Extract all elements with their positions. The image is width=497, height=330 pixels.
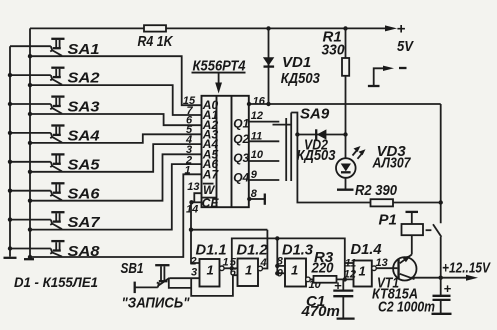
node: pin 16 / VD1 <box>266 102 270 106</box>
svg-text:1: 1 <box>207 263 214 278</box>
node: pin 9 tie <box>275 271 279 275</box>
svg-text:330: 330 <box>322 42 346 59</box>
wire: output Q2 pin 11 <box>249 140 279 142</box>
terminal bar pin 8 <box>264 194 266 205</box>
svg-text:SA2: SA2 <box>68 70 101 87</box>
LED VD3 AL307 <box>336 135 356 190</box>
svg-text:Q2: Q2 <box>233 132 249 146</box>
wire: D1.3 out to R3 <box>310 278 313 280</box>
svg-text:R4 1K: R4 1K <box>138 33 174 50</box>
node: SA4 output / pull-up bus <box>28 141 32 145</box>
bubble: D1.4 output <box>372 266 377 271</box>
diode VD1 KD503 <box>263 28 274 104</box>
wire: SA7 to A6 input pin <box>30 164 202 230</box>
svg-text:Q1: Q1 <box>233 117 249 131</box>
wire: D1.4 input pin 11 <box>345 262 354 264</box>
switch SA2 <box>10 68 65 85</box>
svg-text:220: 220 <box>311 259 334 276</box>
wire: VD2 branch <box>297 134 345 136</box>
svg-text:Q4: Q4 <box>233 171 249 185</box>
svg-text:"ЗАПИСЬ": "ЗАПИСЬ" <box>122 295 191 312</box>
svg-text:SA3: SA3 <box>68 99 101 116</box>
resistor R1 330 <box>342 28 349 134</box>
wire: pin 8 ground stub <box>249 198 264 200</box>
wire: right vertical from pin16 rail to relay contact <box>440 104 442 223</box>
wire: top +5V rail <box>30 27 390 29</box>
node: D1.1 out / NOR rail <box>230 266 234 270</box>
svg-text:13: 13 <box>187 181 199 193</box>
node: VD2 / R1 <box>343 132 347 136</box>
resistor R2 390 <box>371 199 394 206</box>
svg-text:12: 12 <box>251 110 263 122</box>
svg-text:8: 8 <box>251 188 258 200</box>
wire: SA1 to A0 input pin <box>30 56 202 105</box>
wire: SA9 lower contact to R2 rail <box>297 135 370 203</box>
underline of K556RT4 label <box>192 72 246 74</box>
wire: rail from D1.1 output to R3 node <box>232 238 345 279</box>
IC inner divider left <box>216 96 218 207</box>
wire: D1.1 out to D1.2 in pin 5 <box>224 267 237 269</box>
node: SA5 / left bus <box>8 160 12 164</box>
node: pin 8 tie <box>275 264 279 268</box>
svg-text:+: + <box>334 278 342 293</box>
switch SA9 <box>273 113 298 182</box>
svg-text:КД503: КД503 <box>297 147 337 164</box>
svg-text:1: 1 <box>223 257 229 269</box>
switch SA4 <box>10 126 65 143</box>
wire: SA3 to A2 input pin <box>30 114 202 125</box>
switch SA8 <box>10 241 65 257</box>
bubble: D1.1 output <box>220 266 225 271</box>
switch SA1 <box>10 39 65 56</box>
svg-text:C2 1000m: C2 1000m <box>378 299 435 316</box>
resistor R4 <box>144 25 166 31</box>
IC inner divider right <box>231 96 233 207</box>
node: R2 / right vertical <box>439 200 443 204</box>
svg-text:АЛ307: АЛ307 <box>372 155 411 172</box>
svg-text:SA9: SA9 <box>300 106 330 123</box>
node: top rail / VD1 <box>266 26 270 30</box>
node: SA3 output / pull-up bus <box>28 112 32 116</box>
svg-text:1: 1 <box>291 263 298 278</box>
LED arrows <box>353 146 366 159</box>
node: SA9 / VD2 <box>295 132 299 136</box>
svg-text:+: + <box>444 281 452 296</box>
svg-text:D1.3: D1.3 <box>282 242 314 259</box>
transistor VT1 KT815A <box>393 255 416 281</box>
svg-text:10: 10 <box>251 149 264 161</box>
wire: emitter to +12V node <box>411 277 441 279</box>
svg-text:3: 3 <box>191 267 197 279</box>
node: W-CE tie <box>189 200 193 204</box>
wire: pin 16 supply rail <box>249 103 441 105</box>
node: pin 16 at IC <box>247 102 251 106</box>
ground bar: pull-up bus terminal <box>24 258 34 260</box>
wire: D1.2 output up to feedback rail <box>263 230 268 269</box>
svg-text:+: + <box>397 21 406 38</box>
wire: minus terminal <box>374 68 386 86</box>
capacitor C1 470m <box>333 279 354 318</box>
node: SA1 output / pull-up bus <box>28 54 32 58</box>
svg-text:4: 4 <box>260 257 267 269</box>
svg-text:5V: 5V <box>397 38 415 55</box>
node: top rail / R1 <box>343 26 347 30</box>
wire: R2 to relay contact bus <box>393 202 441 204</box>
gate D1.3 <box>285 259 306 287</box>
node: rail / D1.3 inputs <box>275 236 279 240</box>
svg-text:12: 12 <box>344 268 356 280</box>
node: SA2 / left bus <box>8 73 12 77</box>
svg-text:SA4: SA4 <box>68 128 101 145</box>
node: SA3 / left bus <box>8 102 12 106</box>
relay linkage dash <box>426 229 432 231</box>
bubble: D1.2 output <box>258 266 263 271</box>
svg-text:SA1: SA1 <box>68 41 100 58</box>
wire: +12..15V output arrow <box>441 277 470 279</box>
node: SA7 output / pull-up bus <box>28 227 32 231</box>
svg-text:1: 1 <box>359 264 366 279</box>
arrowhead +5V <box>385 25 397 31</box>
wire: pull-up bus from R4 <box>29 28 31 258</box>
svg-text:+12..15V: +12..15V <box>442 260 492 277</box>
wire: SA8 to A7 input pin <box>30 174 202 257</box>
wire: output Q4 pin 9 <box>249 179 279 181</box>
node: pin 8 at IC <box>247 197 251 201</box>
bubble: D1.3 output <box>306 277 311 282</box>
wire: feedback to D1.1 input pin 2 <box>191 230 200 263</box>
svg-text:КД503: КД503 <box>281 70 321 87</box>
svg-text:SA7: SA7 <box>68 214 101 231</box>
node: SA8 / left bus <box>8 246 12 250</box>
relay P1 coil <box>402 212 424 255</box>
gate D1.1 <box>200 259 220 287</box>
wire: SA4 to A3 input pin <box>30 134 202 143</box>
node: SA5 output / pull-up bus <box>28 170 32 174</box>
switch SA5 <box>10 154 65 171</box>
switch SA6 <box>10 183 65 200</box>
pushbutton SB1 <box>135 265 170 293</box>
wire: output Q3 pin 10 <box>249 160 279 162</box>
node: SA4 / left bus <box>8 131 12 135</box>
svg-text:VD1: VD1 <box>282 54 311 71</box>
svg-text:D1.2: D1.2 <box>237 242 269 259</box>
relay contact arm <box>433 224 441 237</box>
svg-text:SB1: SB1 <box>121 260 144 277</box>
wire: SA2 to A1 input pin <box>30 85 202 115</box>
wire: left common bus (switch contacts) <box>9 46 11 256</box>
wire: D1.3 input pin 9 <box>277 272 285 274</box>
wire: D1.3 input pin 8 <box>277 265 285 267</box>
svg-text:P1: P1 <box>379 212 397 229</box>
wire: contact to +12V node <box>440 237 442 278</box>
capacitor C2 1000m <box>432 278 452 314</box>
IC K556RT4 body <box>202 96 249 207</box>
node: SA7 / left bus <box>8 217 12 221</box>
label: minus sign <box>399 67 407 69</box>
wire: D1.4 out to VT1 base <box>376 267 397 269</box>
node: SA2 output / pull-up bus <box>28 83 32 87</box>
wire: SB1 to D1.1 input pin 3 <box>169 277 199 279</box>
svg-text:A7: A7 <box>202 167 220 181</box>
svg-text:9: 9 <box>251 169 258 181</box>
node: SA6 output / pull-up bus <box>28 199 32 203</box>
svg-text:14: 14 <box>186 204 198 216</box>
resistor R3 220 <box>314 276 337 283</box>
node: +12V junction <box>439 276 443 280</box>
svg-text:1: 1 <box>245 263 252 278</box>
svg-text:D1 - К155ЛЕ1: D1 - К155ЛЕ1 <box>14 274 98 290</box>
svg-text:D1.4: D1.4 <box>351 241 383 258</box>
svg-text:470m: 470m <box>301 303 340 320</box>
arrow from label to IC body <box>218 74 220 86</box>
wire: pin 14 CE stub <box>191 201 202 203</box>
gate D1.4 <box>354 261 372 287</box>
svg-text:SA6: SA6 <box>68 185 101 202</box>
svg-text:R2 390: R2 390 <box>355 182 398 199</box>
diode VD2 KD503 <box>316 129 326 139</box>
svg-text:8: 8 <box>277 256 284 268</box>
svg-text:16: 16 <box>253 96 266 108</box>
svg-text:SA5: SA5 <box>68 156 101 173</box>
svg-text:13: 13 <box>376 257 388 269</box>
wire: D1.3 tied inputs from rail <box>276 238 278 273</box>
svg-text:W: W <box>203 183 216 197</box>
wire: SA5 to A4 input pin <box>30 144 202 172</box>
svg-text:Q3: Q3 <box>233 151 249 165</box>
switch SA7 <box>10 212 65 229</box>
wire: CE-W to D1.2 output rail <box>191 202 267 229</box>
arrowhead minus <box>383 66 394 71</box>
switch SA3 <box>10 97 65 114</box>
ground bar: left bus terminal <box>4 257 17 259</box>
node: feedback junction <box>189 228 193 232</box>
node: SA8 output / pull-up bus <box>28 255 32 259</box>
wire: SA6 to A5 input pin <box>30 154 202 200</box>
wire: SB1 branch to D1.2 input pin 6 <box>169 279 191 288</box>
gate D1.2 <box>238 259 259 287</box>
svg-text:1: 1 <box>185 165 191 177</box>
wire: output Q1 pin 12 <box>249 121 279 123</box>
wire: lower return to D1.2 pin 6 <box>191 275 237 296</box>
wire: R3 to C1/D1.4 node <box>337 278 354 280</box>
wire: pin 13 W stub <box>194 193 201 202</box>
svg-text:9: 9 <box>277 268 284 280</box>
node: R3 / C1 / D1.4 input <box>343 277 347 281</box>
minus terminal bar <box>368 85 380 87</box>
node: SA6 / left bus <box>8 189 12 193</box>
